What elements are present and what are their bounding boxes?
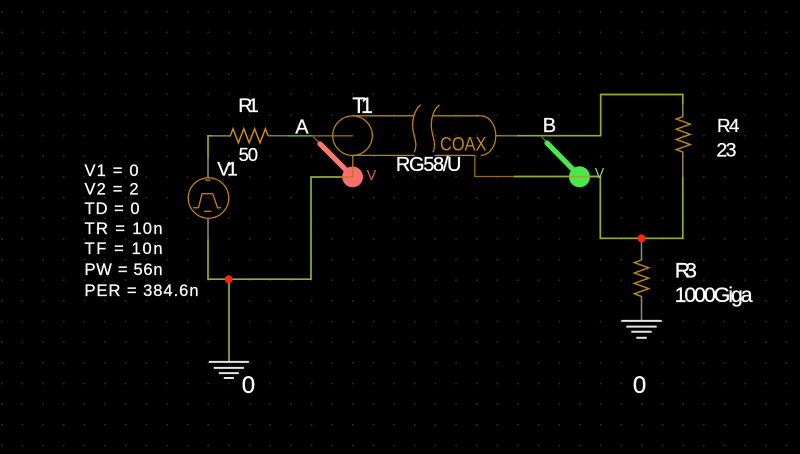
svg-text:TF = 10n: TF = 10n: [85, 240, 163, 258]
svg-text:TD = 0: TD = 0: [85, 200, 140, 218]
svg-text:R4: R4: [717, 115, 740, 136]
svg-text:TR = 10n: TR = 10n: [85, 220, 163, 238]
svg-text:V1: V1: [217, 158, 238, 180]
svg-text:1000Giga: 1000Giga: [675, 283, 753, 307]
svg-text:A: A: [295, 116, 309, 138]
svg-text:V1 = 0: V1 = 0: [85, 162, 139, 180]
svg-text:PER = 384.6n: PER = 384.6n: [85, 282, 199, 300]
svg-text:0: 0: [242, 372, 255, 399]
svg-text:PW = 56n: PW = 56n: [85, 261, 163, 279]
svg-text:V2 = 2: V2 = 2: [85, 180, 139, 198]
svg-text:R1: R1: [238, 95, 259, 117]
svg-text:COAX: COAX: [440, 135, 487, 156]
svg-text:RG58/U: RG58/U: [396, 154, 462, 176]
svg-text:T1: T1: [352, 93, 373, 118]
svg-text:0: 0: [633, 372, 646, 399]
svg-text:V: V: [595, 165, 605, 182]
svg-text:23: 23: [716, 140, 736, 162]
svg-text:B: B: [543, 115, 556, 137]
svg-text:V: V: [367, 167, 377, 184]
svg-text:R3: R3: [675, 259, 697, 283]
svg-text:50: 50: [239, 144, 259, 165]
